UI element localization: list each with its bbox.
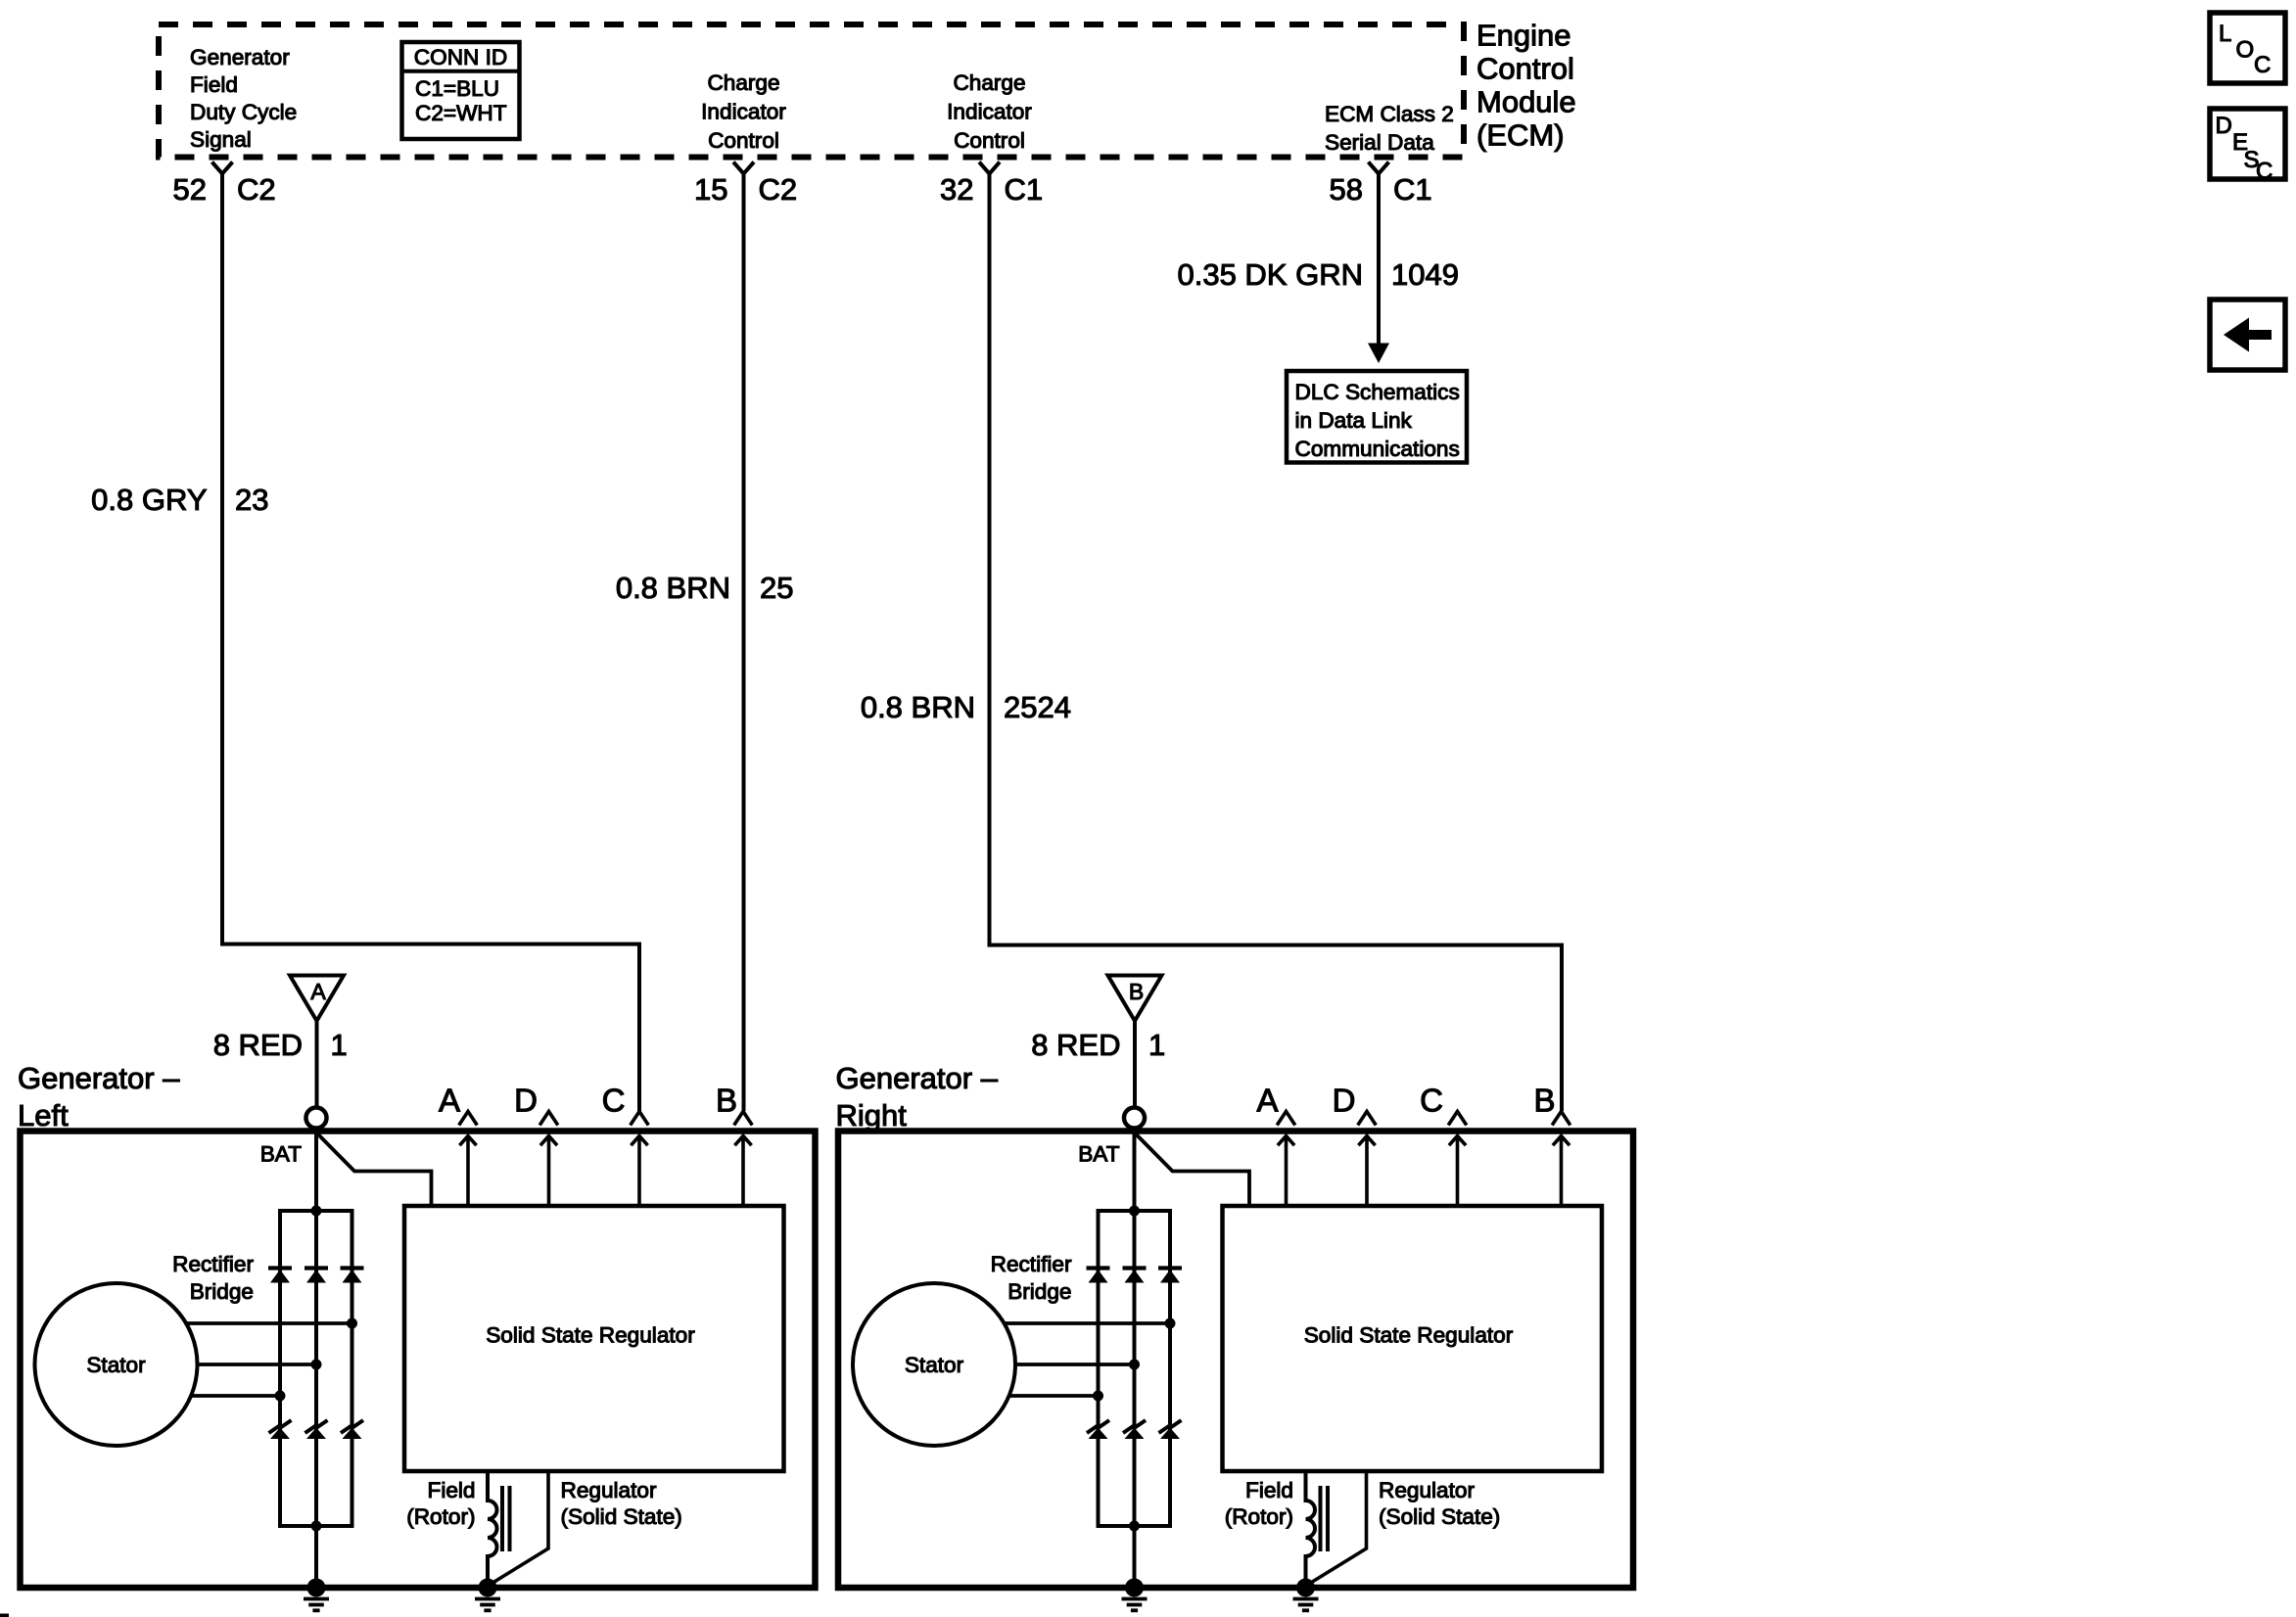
power feed triangle connector B [1108, 976, 1162, 1022]
svg-text:Field: Field [428, 1478, 476, 1502]
ECM connector pin 15 C2 (Y symbol and labels) [694, 162, 797, 208]
rectifier diode top 2 (Left generator) [305, 1269, 328, 1283]
wire label 0.8 BRN 25 [616, 571, 794, 605]
BAT label (Right generator) [1078, 1142, 1119, 1167]
rectifier diode top 2 (Right generator) [1123, 1269, 1147, 1283]
regulator ground return wire (Right generator) [1308, 1471, 1367, 1585]
rectifier bridge outline (Left generator) [280, 1211, 352, 1526]
svg-text:C: C [602, 1083, 626, 1119]
wire label 0.35 DK GRN 1049 [1177, 257, 1458, 292]
svg-text:Signal: Signal [190, 127, 252, 152]
wire from BAT terminal down to rectifier bridge (Left generator) [314, 1129, 318, 1212]
svg-text:D: D [2216, 113, 2232, 139]
svg-text:C2: C2 [237, 172, 276, 207]
ECM connector pin 58 C1 (Y symbol and labels) [1330, 162, 1432, 208]
svg-text:BAT: BAT [1078, 1142, 1119, 1167]
svg-text:C1: C1 [1393, 172, 1432, 207]
rectifier diode top 1 (Left generator) [268, 1269, 292, 1283]
svg-text:B: B [1533, 1083, 1555, 1119]
wire bridge to ground (Right generator) [1133, 1526, 1137, 1584]
svg-text:2524: 2524 [1004, 690, 1071, 724]
svg-text:Control: Control [954, 128, 1025, 153]
svg-text:Communications: Communications [1295, 437, 1460, 461]
svg-text:Field: Field [1245, 1478, 1293, 1502]
terminal D (Right generator): label, chevron, internal arrow [1333, 1083, 1377, 1208]
svg-text:Solid State Regulator: Solid State Regulator [1304, 1323, 1514, 1348]
wire label 0.8 GRY 23 [91, 483, 268, 517]
ground symbol under field coil (Right generator) [1293, 1579, 1319, 1611]
Field (Rotor) label (Right generator) [1225, 1478, 1293, 1529]
stator winding circle (Right generator) [853, 1283, 1015, 1446]
wire 0.8 BRN 2524 from pin 32 to Generator Right terminal B [990, 174, 1563, 1112]
terminal A (Left generator): label, chevron, internal arrow [439, 1083, 477, 1208]
svg-text:1: 1 [1148, 1028, 1165, 1062]
avalanche diode bottom 3 (Left generator) [341, 1420, 363, 1439]
DLC Schematics reference box [1287, 371, 1467, 463]
Rectifier Bridge label (Left generator) [172, 1252, 254, 1304]
Regulator (Solid State) label (Right generator) [1379, 1478, 1500, 1529]
Solid State Regulator box (Left generator) [404, 1206, 784, 1471]
rectifier diode top 3 (Right generator) [1158, 1269, 1182, 1283]
svg-text:Rectifier: Rectifier [991, 1252, 1072, 1276]
svg-text:Charge: Charge [707, 70, 779, 95]
Generator Left title [18, 1061, 180, 1132]
wire label 0.8 BRN 2524 [861, 690, 1071, 724]
terminal C (Left generator): label, chevron, internal arrow [602, 1083, 649, 1208]
ECM pin function label: Charge Indicator Control (pin 15) [701, 70, 786, 153]
wire from BAT terminal to regulator (Left generator) [316, 1132, 432, 1206]
svg-text:Rectifier: Rectifier [172, 1252, 254, 1276]
svg-text:C1: C1 [1005, 172, 1044, 207]
svg-text:Field: Field [190, 72, 238, 97]
wire 0.8 BRN 25 from pin 15 to Generator Left terminal B [742, 174, 746, 1112]
Field (Rotor) label (Left generator) [406, 1478, 475, 1529]
svg-text:Bridge: Bridge [190, 1279, 254, 1304]
svg-text:Module: Module [1476, 85, 1576, 119]
page corner mark [0, 1614, 9, 1617]
svg-text:Regulator: Regulator [1379, 1478, 1475, 1502]
svg-text:8 RED: 8 RED [213, 1028, 303, 1062]
svg-text:Generator –: Generator – [836, 1061, 999, 1095]
wire 8 RED 1 from connector A to BAT terminal [315, 1021, 319, 1108]
regulator ground return wire (Left generator) [490, 1471, 548, 1585]
svg-text:58: 58 [1330, 172, 1363, 207]
svg-text:D: D [514, 1083, 538, 1119]
DESC navigation box [2210, 109, 2285, 185]
svg-text:C2: C2 [759, 172, 798, 207]
svg-text:C: C [2256, 159, 2273, 185]
svg-text:Control: Control [1476, 52, 1574, 86]
avalanche diode bottom 2 (Left generator) [305, 1420, 328, 1439]
stator phase wires to rectifier bridge (Right generator) [1005, 1323, 1171, 1396]
svg-text:A: A [310, 979, 326, 1004]
avalanche diode bottom 3 (Right generator) [1159, 1420, 1182, 1439]
stator phase wires to rectifier bridge (Left generator) [186, 1323, 352, 1396]
svg-text:(Rotor): (Rotor) [1225, 1504, 1293, 1529]
terminal A (Right generator): label, chevron, internal arrow [1256, 1083, 1294, 1208]
svg-text:0.8 GRY: 0.8 GRY [91, 483, 207, 517]
junction dots (Right generator bridge) [1093, 1206, 1176, 1532]
avalanche diode bottom 1 (Right generator) [1087, 1420, 1109, 1439]
Solid State Regulator box (Right generator) [1223, 1206, 1603, 1471]
svg-text:in Data Link: in Data Link [1295, 408, 1413, 433]
svg-text:0.8 BRN: 0.8 BRN [861, 690, 975, 724]
svg-text:Bridge: Bridge [1007, 1279, 1071, 1304]
Regulator (Solid State) label (Left generator) [561, 1478, 682, 1529]
wire 0.35 DK GRN 1049 from pin 58 to DLC reference [1368, 174, 1389, 364]
ECM connector pin 52 C2 (Y symbol and labels) [173, 162, 276, 208]
terminal B (Right generator): label, chevron, internal arrow [1533, 1083, 1570, 1208]
rectifier diode top 3 (Left generator) [341, 1269, 364, 1283]
rectifier bridge outline (Right generator) [1099, 1211, 1171, 1526]
wire from BAT terminal down to rectifier bridge (Right generator) [1133, 1129, 1137, 1212]
wire label 8 RED 1 (Right generator) [1031, 1028, 1165, 1062]
svg-text:8 RED: 8 RED [1031, 1028, 1120, 1062]
svg-text:(ECM): (ECM) [1476, 118, 1565, 153]
wire from BAT terminal to regulator (Right generator) [1135, 1132, 1250, 1206]
junction dots (Left generator bridge) [275, 1206, 358, 1532]
svg-text:C: C [1420, 1083, 1443, 1119]
svg-text:Indicator: Indicator [947, 100, 1032, 124]
stator winding circle (Left generator) [35, 1283, 198, 1446]
svg-text:DLC Schematics: DLC Schematics [1295, 380, 1460, 404]
power feed triangle connector A [290, 976, 344, 1022]
ECM pin function label: Generator Field Duty Cycle Signal [190, 45, 297, 152]
svg-text:C2=WHT: C2=WHT [415, 101, 507, 125]
svg-text:Charge: Charge [953, 70, 1025, 95]
svg-text:A: A [439, 1083, 460, 1119]
svg-text:Stator: Stator [905, 1353, 964, 1377]
svg-text:Engine: Engine [1476, 19, 1571, 53]
svg-text:Serial Data: Serial Data [1325, 130, 1434, 155]
svg-text:0.8 BRN: 0.8 BRN [616, 571, 730, 605]
svg-text:B: B [716, 1083, 737, 1119]
svg-text:ECM Class 2: ECM Class 2 [1325, 102, 1454, 126]
svg-text:Solid State Regulator: Solid State Regulator [486, 1323, 695, 1348]
svg-text:CONN ID: CONN ID [414, 45, 507, 69]
avalanche diode bottom 1 (Left generator) [269, 1420, 292, 1439]
svg-text:C1=BLU: C1=BLU [415, 76, 499, 101]
svg-text:Control: Control [708, 128, 779, 153]
field rotor coil (Left generator) [488, 1471, 510, 1584]
ECM pin function label: Charge Indicator Control (pin 32) [947, 70, 1032, 153]
Generator Right box [838, 1132, 1633, 1589]
svg-text:Duty Cycle: Duty Cycle [190, 100, 297, 124]
avalanche diode bottom 2 (Right generator) [1123, 1420, 1146, 1439]
ground symbol under rectifier bridge (Right generator) [1122, 1579, 1148, 1611]
svg-text:(Solid State): (Solid State) [561, 1504, 682, 1529]
svg-text:0.35 DK GRN: 0.35 DK GRN [1177, 257, 1363, 292]
Generator Right title [836, 1061, 999, 1132]
wire bridge to ground (Left generator) [314, 1526, 318, 1584]
ECM module dashed outline box [159, 24, 1464, 158]
BAT label (Left generator) [260, 1142, 302, 1167]
ECM module title: Engine Control Module (ECM) [1476, 19, 1576, 153]
terminal B (Left generator): label, chevron, internal arrow [716, 1083, 752, 1208]
back arrow navigation box [2210, 300, 2285, 370]
svg-text:1049: 1049 [1391, 257, 1459, 292]
ground symbol under rectifier bridge (Left generator) [304, 1579, 329, 1611]
ECM connector pin 32 C1 (Y symbol and labels) [940, 162, 1043, 208]
svg-text:L: L [2219, 21, 2231, 47]
svg-text:Generator –: Generator – [18, 1061, 180, 1095]
BAT ring terminal (Left generator) [306, 1108, 327, 1129]
Rectifier Bridge label (Right generator) [991, 1252, 1072, 1304]
terminal D (Left generator): label, chevron, internal arrow [514, 1083, 558, 1208]
svg-text:1: 1 [331, 1028, 348, 1062]
BAT ring terminal (Right generator) [1124, 1108, 1145, 1129]
svg-text:23: 23 [235, 483, 268, 517]
svg-text:Left: Left [18, 1098, 69, 1132]
svg-text:C: C [2254, 52, 2271, 78]
svg-text:O: O [2236, 37, 2255, 64]
wire 0.8 GRY 23 from pin 52 to Generator Left terminal C [222, 174, 639, 1112]
wire label 8 RED 1 (Left generator) [213, 1028, 348, 1062]
ECM pin function label: ECM Class 2 Serial Data [1325, 102, 1454, 155]
LOC navigation box [2210, 13, 2285, 83]
svg-text:Right: Right [836, 1098, 908, 1132]
field rotor coil (Right generator) [1306, 1471, 1329, 1584]
svg-text:(Solid State): (Solid State) [1379, 1504, 1500, 1529]
svg-text:(Rotor): (Rotor) [406, 1504, 475, 1529]
Generator Left box [21, 1132, 816, 1589]
svg-text:Indicator: Indicator [701, 100, 786, 124]
svg-text:25: 25 [760, 571, 793, 605]
wire 8 RED 1 from connector B to BAT terminal [1133, 1021, 1137, 1108]
svg-text:Generator: Generator [190, 45, 290, 69]
svg-text:15: 15 [694, 172, 727, 207]
terminal C (Right generator): label, chevron, internal arrow [1420, 1083, 1467, 1208]
svg-text:A: A [1256, 1083, 1278, 1119]
svg-text:D: D [1333, 1083, 1356, 1119]
svg-text:Regulator: Regulator [561, 1478, 657, 1502]
svg-text:Stator: Stator [86, 1353, 146, 1377]
svg-text:B: B [1129, 979, 1144, 1004]
svg-text:BAT: BAT [260, 1142, 302, 1167]
CONN ID table [402, 42, 520, 139]
ground symbol under field coil (Left generator) [475, 1579, 500, 1611]
rectifier diode top 1 (Right generator) [1087, 1269, 1110, 1283]
svg-text:32: 32 [940, 172, 973, 207]
svg-text:52: 52 [173, 172, 207, 207]
